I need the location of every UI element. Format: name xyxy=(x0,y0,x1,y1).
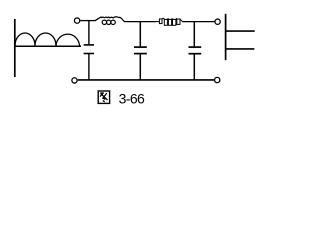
capacitor C2 top stub xyxy=(139,22,141,47)
wire: top rail input terminal to L2 xyxy=(80,20,95,22)
terminal: top-right output xyxy=(215,19,220,24)
terminal: bottom-left xyxy=(72,78,77,83)
capacitor C3 top stub xyxy=(193,22,195,47)
wire: bottom rail xyxy=(78,79,214,81)
feeder line vertical bar xyxy=(225,14,227,60)
capacitor C2 bottom plate xyxy=(134,53,147,55)
capacitor C1 bottom stub xyxy=(88,54,90,80)
capacitor C2 top plate xyxy=(134,46,147,48)
inductor L1 (antenna coil) arcs xyxy=(15,33,80,46)
wire: top rail L2 to node A and to L3 xyxy=(124,21,155,23)
inductor L2 loops xyxy=(102,20,115,24)
capacitor C1 bottom plate xyxy=(84,53,94,55)
inductor L3 square loop boxes xyxy=(159,19,180,25)
capacitor C3 top plate xyxy=(189,46,202,48)
wire: top rail L3 to output terminal xyxy=(182,21,214,23)
capacitor C2 bottom stub xyxy=(139,54,141,79)
feeder top prong xyxy=(225,30,255,32)
terminal: bottom-right xyxy=(215,77,220,82)
inductor L1 baseline xyxy=(14,45,81,47)
terminal: top-left input xyxy=(74,18,79,23)
inductor L2 lead-in xyxy=(95,18,100,21)
capacitor C3 bottom stub xyxy=(193,54,195,79)
feeder bottom prong xyxy=(225,48,254,50)
caption glyph 图 xyxy=(98,91,109,103)
inductor L3 top connector humps and leads xyxy=(155,18,183,21)
svg-text:3-66: 3-66 xyxy=(119,91,145,107)
wire: left antenna lead xyxy=(14,19,16,77)
inductor L2 top humps xyxy=(100,17,125,22)
capacitor C3 bottom plate xyxy=(189,53,202,55)
capacitor C1 top plate xyxy=(84,44,94,46)
capacitor C1 top stub xyxy=(88,21,90,45)
